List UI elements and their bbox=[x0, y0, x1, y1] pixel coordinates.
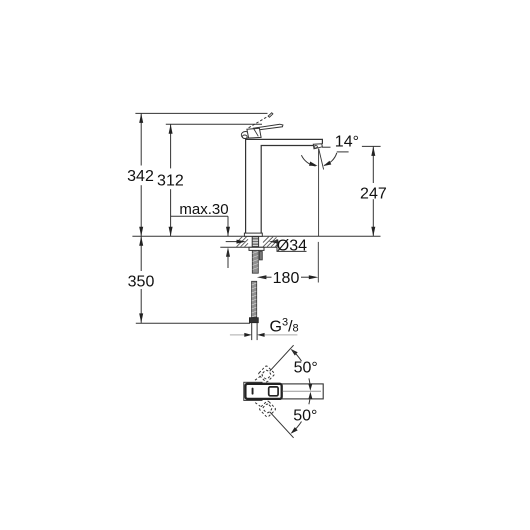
top view outer thin rect bbox=[244, 382, 262, 400]
arrow 342 bottom bbox=[139, 227, 143, 237]
hose end fitting bbox=[249, 318, 258, 323]
14deg left arc bbox=[301, 155, 315, 166]
50deg upper arc tail bbox=[292, 350, 301, 361]
faucet body outline bbox=[246, 139, 323, 233]
cartridge crease bbox=[254, 129, 259, 137]
14deg left arc arrow bbox=[309, 162, 318, 166]
lever handle bar bbox=[253, 124, 283, 130]
water stream vertical line bbox=[318, 149, 320, 237]
dimension line 247 bbox=[372, 146, 374, 236]
svg-text:247: 247 bbox=[360, 186, 387, 203]
dimension 180 bbox=[257, 275, 267, 279]
50deg upper centerline arrow bbox=[309, 378, 310, 386]
14deg leader segment bbox=[322, 146, 331, 148]
svg-text:350: 350 bbox=[128, 274, 155, 291]
lever raised tip tick bbox=[268, 113, 273, 117]
dashed lever position lower bbox=[255, 400, 276, 417]
shank threads bbox=[252, 237, 258, 247]
hose upper braided section bbox=[252, 250, 258, 273]
arrow 312 bottom bbox=[169, 227, 173, 237]
Ø34 arrow left bbox=[226, 241, 238, 243]
top view lever tick bbox=[252, 388, 254, 395]
aerator bbox=[313, 144, 322, 149]
max.30 dimension line above counter bbox=[227, 216, 229, 236]
14deg right arc arrow bbox=[323, 161, 331, 166]
50deg lower arc tail bbox=[292, 422, 301, 433]
svg-text:180: 180 bbox=[273, 270, 300, 287]
braided hose lower bbox=[252, 281, 257, 317]
50deg upper leader line bbox=[270, 345, 294, 371]
247 top tick bbox=[362, 145, 381, 147]
dashed lever position upper bbox=[255, 365, 275, 382]
G3/8 arrows bbox=[230, 334, 245, 336]
arrow 312 top bbox=[169, 124, 173, 134]
base plate bbox=[244, 233, 262, 236]
arrow max.30 down bbox=[226, 227, 230, 237]
counter hatch left bbox=[237, 237, 249, 247]
svg-text:max.30: max.30 bbox=[179, 201, 228, 218]
50deg lower centerline arrow bbox=[308, 392, 312, 399]
svg-text:342: 342 bbox=[127, 168, 154, 185]
max.30 underline bbox=[171, 215, 228, 217]
arrow 350 bottom bbox=[139, 313, 143, 323]
arrow 247 top bbox=[371, 146, 375, 156]
top view rounded square bbox=[269, 387, 278, 396]
arrow 342 top bbox=[139, 113, 143, 123]
hose side fitting bbox=[259, 252, 262, 260]
cartridge left bumps bbox=[241, 132, 249, 139]
Ø34 arrow right bbox=[269, 240, 279, 244]
14deg stub bbox=[337, 151, 349, 153]
dimension line 342 bbox=[140, 113, 142, 236]
bottom extension line bbox=[136, 322, 250, 324]
lever raised phantom dashed line bbox=[249, 116, 269, 128]
svg-text:Ø34: Ø34 bbox=[277, 237, 307, 254]
max.30 extension below counter bbox=[227, 252, 229, 268]
extension line 312 level bbox=[166, 123, 262, 125]
counter top line bbox=[132, 235, 380, 237]
svg-text:14°: 14° bbox=[335, 134, 359, 151]
svg-text:50°: 50° bbox=[294, 360, 318, 377]
extension line top (342 level) bbox=[135, 112, 267, 114]
arrow 247 bottom bbox=[371, 227, 375, 237]
dimension line 350 bbox=[140, 236, 142, 323]
counter bottom line bbox=[220, 246, 276, 248]
svg-text:312: 312 bbox=[157, 172, 184, 189]
50deg lower arrowhead bbox=[291, 427, 298, 434]
dimension line 312 bbox=[170, 124, 172, 236]
mounting nut bbox=[249, 247, 264, 250]
stream tilted 14deg line bbox=[319, 149, 324, 170]
Ø34 bracket bbox=[277, 239, 307, 251]
50deg lower leader line bbox=[270, 412, 294, 438]
counter hatch right bbox=[263, 237, 277, 247]
connection tube G3/8 bbox=[252, 323, 257, 340]
arrow max.30 up (below counter) bbox=[226, 247, 230, 257]
14deg right arc bbox=[324, 153, 337, 166]
top view centerline bbox=[283, 390, 321, 392]
50deg upper arrowhead bbox=[291, 349, 298, 356]
arrow 350 top bbox=[139, 236, 143, 246]
lever cartridge box bbox=[247, 128, 261, 138]
svg-text:50°: 50° bbox=[293, 408, 317, 425]
top view lever thick rect bbox=[245, 384, 281, 399]
top view spout rect bbox=[260, 384, 323, 399]
stream extension below counter bbox=[317, 242, 319, 283]
